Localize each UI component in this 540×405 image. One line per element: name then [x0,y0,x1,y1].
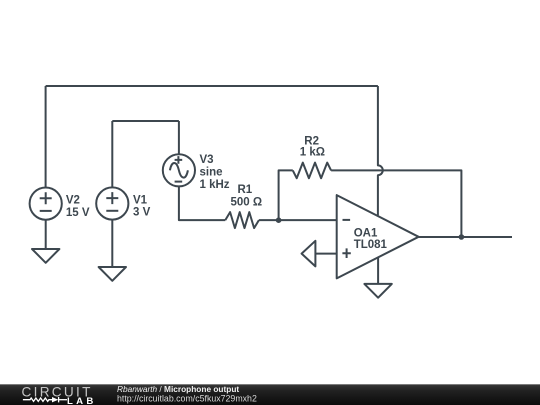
node: output junction dot [459,234,465,240]
svg-text:Rbanwarth / Microphone output: Rbanwarth / Microphone output [117,384,239,394]
ground: op-amp negative supply [364,284,391,298]
wire: V1-V3 rail [112,120,179,122]
wire: V2 top to +15V rail [45,86,47,188]
wire: +15V top rail [46,85,378,87]
svg-text:500 Ω: 500 Ω [231,197,263,209]
wire: rail down to V3 top [178,121,180,154]
svg-text:3 V: 3 V [133,207,151,219]
svg-text:1 kΩ: 1 kΩ [300,146,325,158]
svg-text:1 kHz: 1 kHz [200,179,230,191]
svg-text:R1: R1 [238,184,253,196]
CircuitLab logo [22,385,97,405]
resistor R1 [225,184,262,228]
svg-text:TL081: TL081 [354,239,388,251]
svg-text:LAB: LAB [67,396,97,405]
voltage source V1 [96,187,150,219]
wire: op-amp output [419,236,512,238]
wire: +15V rail down to op-amp V+ pin (hops over R2 wire) [378,86,383,215]
wire: non-inverting input to ground [315,253,336,255]
wire: op-amp V- pin to ground [377,257,379,284]
ground: at non-inverting input (rotated, points left) [302,241,316,267]
wire: V1 top to rail [111,121,113,188]
svg-text:V3: V3 [200,154,214,166]
svg-text:V2: V2 [66,194,80,206]
svg-text:15 V: 15 V [66,207,90,219]
op-amp OA1 TL081 [337,195,419,278]
svg-text:OA1: OA1 [354,227,378,239]
wire: V1 to ground [111,220,113,268]
svg-text:http://circuitlab.com/c5fkux72: http://circuitlab.com/c5fkux729mxh2 [117,394,257,404]
resistor R2 [293,136,331,179]
wire: V3 bottom to R1 [179,186,225,220]
ground: below V1 [99,267,126,281]
ground: below V2 [32,249,59,263]
wire: R2 right to output node [331,170,461,237]
node: feedback junction dot [276,217,282,223]
wire: R1 to op-amp inverting input [259,219,337,221]
voltage source V3 (sine) [163,154,230,191]
svg-text:V1: V1 [133,194,148,206]
svg-text:sine: sine [200,166,223,178]
wire: junction up to R2 left [279,170,293,220]
wire: V2 to ground [45,220,47,249]
voltage source V2 [30,188,90,220]
